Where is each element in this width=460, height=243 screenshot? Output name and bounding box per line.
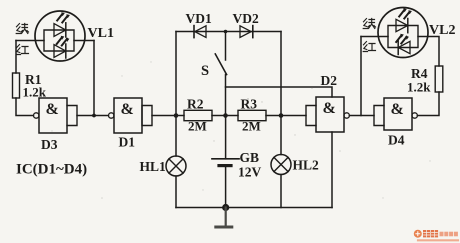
- resistor R4: [435, 66, 443, 92]
- wire top bus: [176, 31, 281, 33]
- LED indicator VL2: [378, 8, 428, 58]
- resistor R1: [13, 73, 20, 98]
- wire VL1 right down: [93, 41, 95, 116]
- label R3 2M: [241, 97, 261, 134]
- NAND gate D1: [109, 98, 153, 133]
- NAND gate D3: [34, 98, 78, 133]
- label green (VL2): [363, 19, 375, 29]
- svg-text:2M: 2M: [242, 119, 261, 134]
- label green (VL1): [16, 24, 28, 34]
- watermark logo: [414, 230, 458, 241]
- battery GB: [212, 116, 239, 208]
- wire R1 to D3 output: [16, 98, 33, 116]
- svg-text:R2: R2: [187, 97, 204, 112]
- node top centre junction: [224, 30, 228, 34]
- wire R4 top to VL2: [418, 37, 439, 67]
- lamp HL1: [166, 116, 186, 208]
- scan speckles: [51, 61, 430, 199]
- svg-text:HL2: HL2: [293, 158, 320, 173]
- svg-text:VD1: VD1: [186, 11, 212, 26]
- wire VL2 left lead: [361, 36, 388, 38]
- label R2 2M: [187, 97, 207, 134]
- LED indicator VL1: [35, 11, 85, 61]
- node left input junction: [174, 113, 179, 118]
- svg-text:D2: D2: [321, 73, 338, 88]
- wire bottom rail: [176, 207, 332, 209]
- label R4 1.2k: [407, 66, 431, 95]
- wire R3 to right node: [266, 115, 306, 117]
- label GB 12V: [238, 150, 262, 180]
- wire S node to D2 top input: [226, 87, 333, 97]
- svg-text:2M: 2M: [188, 119, 207, 134]
- svg-text:GB: GB: [240, 150, 260, 165]
- svg-text:1.2k: 1.2k: [407, 80, 431, 95]
- svg-text:S: S: [201, 63, 209, 79]
- node battery/rail junction: [222, 204, 229, 211]
- svg-text:&: &: [323, 100, 336, 117]
- diode VD1: [194, 26, 206, 38]
- svg-text:VL2: VL2: [429, 23, 455, 38]
- switch S: [215, 32, 226, 116]
- wire left rail down: [15, 41, 17, 74]
- svg-text:&: &: [121, 101, 134, 118]
- svg-text:D3: D3: [41, 137, 58, 152]
- wire D2 output to D4 input: [349, 115, 374, 117]
- wire node to R2: [176, 115, 184, 117]
- label R1 1.2k: [23, 72, 47, 100]
- svg-text:D4: D4: [388, 133, 405, 148]
- svg-text:D1: D1: [119, 135, 136, 150]
- diode VD2: [240, 26, 253, 38]
- resistor R2: [184, 110, 212, 120]
- NAND gate D4: [374, 98, 417, 130]
- svg-text:R3: R3: [241, 97, 258, 112]
- node VL1/D1 junction: [92, 114, 96, 118]
- wire VL1 left lead: [16, 40, 44, 42]
- wire D3 input to D1 output: [77, 115, 108, 117]
- svg-text:VL1: VL1: [88, 26, 114, 41]
- node centre junction: [223, 113, 228, 118]
- wire D4 output to R4: [417, 92, 439, 116]
- label red (VL1): [16, 45, 28, 55]
- svg-text:12V: 12V: [238, 165, 262, 180]
- NAND gate D2: [306, 97, 349, 132]
- label red (VL2): [363, 42, 375, 52]
- svg-text:HL1: HL1: [140, 159, 167, 174]
- wire VL1 right lead: [74, 40, 94, 42]
- wire VL2 left down: [360, 37, 362, 116]
- wire left vertical riser: [175, 32, 177, 116]
- svg-text:VD2: VD2: [233, 11, 259, 26]
- svg-text:&: &: [391, 101, 404, 118]
- wire R2 to centre node: [212, 115, 238, 117]
- ground terminal: [216, 208, 232, 228]
- resistor R3: [238, 110, 266, 120]
- node right input junction: [279, 113, 284, 118]
- wire right vertical riser: [280, 32, 282, 116]
- svg-text:IC(D1~D4): IC(D1~D4): [16, 162, 87, 178]
- svg-text:&: &: [46, 101, 59, 118]
- wire D1 input to node: [152, 115, 176, 117]
- lamp HL2: [271, 116, 291, 208]
- wire D2 bottom to rail: [331, 132, 333, 208]
